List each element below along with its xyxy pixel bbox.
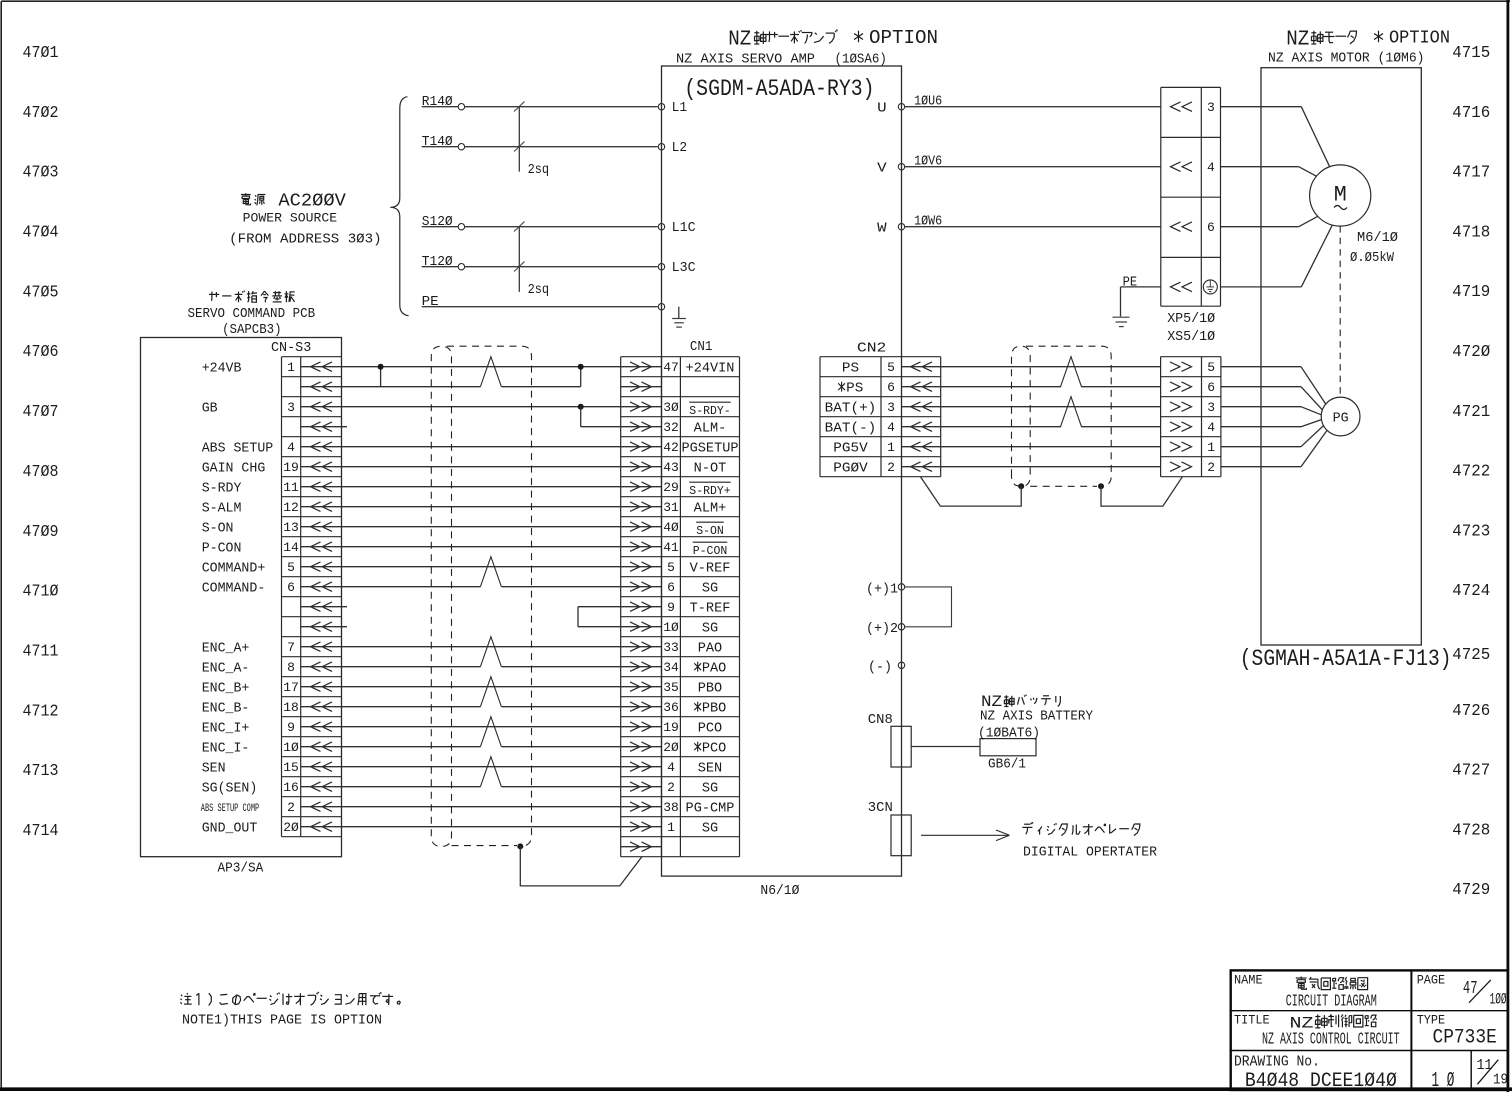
svg-text:4: 4 <box>887 420 895 435</box>
connector arrow CN1 row 22 <box>630 782 640 792</box>
terminal L1 <box>658 104 664 110</box>
connector arrow CN-S3 row 22 <box>311 782 321 792</box>
svg-text:L1: L1 <box>672 101 688 116</box>
connector arrow CN1 row 9 <box>630 522 640 532</box>
wire CN-S3 row 18 to CN1 (twisted) <box>301 706 481 708</box>
svg-text:DRAWING No.: DRAWING No. <box>1234 1053 1320 1070</box>
svg-text:4715: 4715 <box>1452 44 1490 63</box>
svg-text:XP5/1Ø: XP5/1Ø <box>1167 312 1215 327</box>
connector arrow CN-S3 row 8 <box>311 502 321 512</box>
cable bundle 2sq (top) <box>518 107 520 172</box>
svg-text:4: 4 <box>1207 420 1215 435</box>
svg-text:4728: 4728 <box>1452 821 1490 840</box>
svg-text:NOTE1)THIS PAGE IS OPTION: NOTE1)THIS PAGE IS OPTION <box>182 1014 382 1029</box>
svg-text:ENC_I-: ENC_I- <box>202 741 250 756</box>
svg-text:POWER SOURCE: POWER SOURCE <box>243 210 338 225</box>
connector arrow CN-S3 row 15 <box>311 642 321 652</box>
svg-text:32: 32 <box>663 420 679 435</box>
wire CN-S3 row 24 to CN1 <box>301 826 662 828</box>
connector arrow CN1 row 19 <box>630 722 640 732</box>
svg-text:11: 11 <box>1477 1057 1493 1074</box>
connector arrow CN1 row 8 <box>630 502 640 512</box>
twisted pair symbol rows 15/16 <box>480 637 501 667</box>
battery GB6/1 box <box>980 739 1036 756</box>
PCB box AP3/SA <box>141 338 342 857</box>
shield junction <box>1098 483 1104 489</box>
svg-text:33: 33 <box>663 640 679 655</box>
svg-text:CP733E: CP733E <box>1433 1027 1497 1050</box>
twisted pair symbol rows 17/18 <box>480 677 501 707</box>
svg-text:NZ AXIS CONTROL CIRCUIT: NZ AXIS CONTROL CIRCUIT <box>1262 1030 1400 1049</box>
svg-text:4727: 4727 <box>1452 762 1490 781</box>
svg-text:T-REF: T-REF <box>690 601 731 616</box>
connector arrow CN-S3 row 17 <box>311 682 321 692</box>
svg-text:5: 5 <box>1207 360 1215 375</box>
wire U to motor <box>1221 106 1302 108</box>
terminal (-) <box>898 662 904 668</box>
svg-text:GND_OUT: GND_OUT <box>202 821 258 836</box>
svg-text:PS: PS <box>842 361 859 376</box>
arrow to digital operator <box>921 834 1008 836</box>
connector arrow CN1 row 3 <box>630 402 640 412</box>
twisted pair PS/*PS <box>1061 357 1082 387</box>
svg-text:ENC_A-: ENC_A- <box>202 661 250 676</box>
terminal (+)2 <box>898 624 904 630</box>
svg-text:ENC_B+: ENC_B+ <box>202 681 250 696</box>
svg-text:35: 35 <box>663 680 679 695</box>
svg-text:19: 19 <box>1493 1071 1508 1088</box>
connector arrow CN-S3 row 23 <box>311 802 321 812</box>
svg-text:47Ø6: 47Ø6 <box>23 343 59 362</box>
svg-text:TYPE: TYPE <box>1417 1013 1446 1028</box>
wire CN-S3 row 5 to CN1 <box>301 446 662 448</box>
pin 3 (XS5 PG) <box>1170 402 1180 412</box>
connector arrow CN-S3 row 16 <box>311 662 321 672</box>
svg-text:1Ø: 1Ø <box>663 620 679 635</box>
connector arrow CN1 row 5 <box>630 442 640 452</box>
connector arrow CN-S3 row 3 <box>311 402 321 412</box>
svg-text:8: 8 <box>287 660 295 675</box>
svg-text:4725: 4725 <box>1452 646 1490 665</box>
svg-text:PG: PG <box>1333 412 1349 427</box>
svg-text:16: 16 <box>283 780 299 795</box>
svg-text:47Ø9: 47Ø9 <box>23 523 59 542</box>
svg-text:SERVO COMMAND PCB: SERVO COMMAND PCB <box>188 307 316 322</box>
svg-text:47: 47 <box>663 360 679 375</box>
wire CN-S3 row 16 to CN1 (twisted) <box>301 666 481 668</box>
svg-text:1ØW6: 1ØW6 <box>914 215 942 230</box>
svg-text:1: 1 <box>287 360 295 375</box>
svg-text:PG-CMP: PG-CMP <box>686 801 735 816</box>
pin 4 (XS5 PG) <box>1170 422 1180 432</box>
pin *PS = 6 (CN2) <box>838 382 845 392</box>
svg-text:PAO: PAO <box>698 641 722 656</box>
svg-text:31: 31 <box>663 500 679 515</box>
NAME value japanese <box>1296 977 1368 990</box>
wire T-REF/SG jumper <box>578 606 662 608</box>
connector arrow CN-S3 row 18 <box>311 702 321 712</box>
connector arrow CN-S3 row 9 <box>311 522 321 532</box>
svg-text:(1ØSA6): (1ØSA6) <box>835 53 887 68</box>
twisted pair symbol rows 11/12 <box>480 557 501 587</box>
terminal L1C <box>658 224 664 230</box>
svg-text:PG5V: PG5V <box>833 441 868 456</box>
pin name *PAO <box>694 662 701 672</box>
svg-text:S-ON: S-ON <box>202 521 234 536</box>
shield drain CN2 side <box>921 477 1022 506</box>
shield drain XS5 side <box>1101 477 1182 506</box>
wire CN-S3 row 22 to CN1 (twisted) <box>301 786 481 788</box>
terminal L3C <box>658 264 664 270</box>
svg-text:PGSETUP: PGSETUP <box>681 441 738 456</box>
connector arrow CN1 row 16 <box>630 662 640 672</box>
svg-text:(FROM ADDRESS 3Ø3): (FROM ADDRESS 3Ø3) <box>229 232 381 248</box>
svg-text:DIGITAL OPERTATER: DIGITAL OPERTATER <box>1023 846 1157 861</box>
svg-text:(SGDM-A5ADA-RY3): (SGDM-A5ADA-RY3) <box>684 76 874 102</box>
connector arrow CN-S3 row 11 <box>311 562 321 572</box>
connector arrow CN1 row 17 <box>630 682 640 692</box>
svg-text:1: 1 <box>667 820 675 835</box>
svg-text:N-OT: N-OT <box>694 461 727 476</box>
svg-text:TITLE: TITLE <box>1234 1013 1270 1028</box>
connector arrow CN1 row 11 <box>630 562 640 572</box>
svg-text:47Ø2: 47Ø2 <box>23 104 59 123</box>
twisted pair symbol rows 21/22 <box>480 757 501 787</box>
svg-text:PCO: PCO <box>702 741 726 756</box>
svg-text:9: 9 <box>287 720 295 735</box>
svg-text:3: 3 <box>887 400 895 415</box>
wire XS5 to PG <box>1221 466 1301 468</box>
svg-text:3CN: 3CN <box>868 801 893 816</box>
shield drain wire to CN1 <box>520 846 642 886</box>
svg-text:GB6/1: GB6/1 <box>988 757 1026 772</box>
svg-text:PCO: PCO <box>698 721 722 736</box>
svg-text:4719: 4719 <box>1452 283 1490 302</box>
wire CN2 row 3 <box>902 406 1161 408</box>
svg-text:4714: 4714 <box>23 822 59 841</box>
power source label <box>241 193 266 205</box>
cable shield (dashed capsule, left) <box>431 346 451 846</box>
wire CN-S3 row 7 to CN1 <box>301 486 662 488</box>
svg-text:4718: 4718 <box>1452 223 1490 242</box>
servo command PCB label <box>209 291 295 303</box>
svg-text:5: 5 <box>887 360 895 375</box>
svg-text:2: 2 <box>1207 460 1215 475</box>
svg-text:ENC_I+: ENC_I+ <box>202 721 250 736</box>
svg-text:(+)2: (+)2 <box>866 622 898 637</box>
svg-text:SEN: SEN <box>698 761 722 776</box>
svg-text:1: 1 <box>887 440 895 455</box>
svg-text:2Ø: 2Ø <box>663 740 679 755</box>
wire CN-S3 row 20 to CN1 (twisted) <box>301 746 481 748</box>
svg-text:+24VIN: +24VIN <box>686 361 735 376</box>
wire CN-S3 row 17 to CN1 <box>301 686 662 688</box>
connector arrow CN-S3 row 6 <box>311 462 321 472</box>
svg-text:NAME: NAME <box>1234 973 1263 988</box>
connector arrow CN1 row 20 <box>630 742 640 752</box>
svg-text:43: 43 <box>663 460 679 475</box>
junction <box>578 364 584 370</box>
connector arrow CN1 row 2 <box>630 382 640 392</box>
wire CN-S3 row 6 to CN1 <box>301 466 662 468</box>
shield junction <box>1018 483 1024 489</box>
svg-text:S-ON: S-ON <box>696 525 724 538</box>
wire CN-S3 row 23 to CN1 <box>301 806 662 808</box>
wire CN2 row 2 (twisted) <box>902 386 1062 388</box>
svg-text:COMMAND-: COMMAND- <box>202 581 266 596</box>
connector arrow CN1 row 13 <box>630 602 640 612</box>
connector arrow CN1 row 12 <box>630 582 640 592</box>
wire CN-S3 row 10 to CN1 <box>301 546 662 548</box>
svg-text:47Ø4: 47Ø4 <box>23 223 59 242</box>
svg-text:4726: 4726 <box>1452 702 1490 721</box>
wire CN-S3 row 12 to CN1 (twisted) <box>301 586 481 588</box>
svg-text:47Ø5: 47Ø5 <box>23 283 59 302</box>
svg-text:S-ALM: S-ALM <box>202 501 242 516</box>
svg-text:CN8: CN8 <box>868 713 893 728</box>
svg-text:471Ø: 471Ø <box>23 583 59 602</box>
svg-text:CN1: CN1 <box>690 340 713 355</box>
connector arrow CN1 row 15 <box>630 642 640 652</box>
brace (power group) <box>390 97 408 316</box>
wire CN2 row 6 <box>902 466 1161 468</box>
svg-text:NZ AXIS MOTOR (1ØM6): NZ AXIS MOTOR (1ØM6) <box>1268 51 1425 66</box>
svg-text:(-): (-) <box>868 661 892 676</box>
svg-text:PGØV: PGØV <box>833 461 868 476</box>
wire CN-S3 row 1 to CN1 <box>301 366 662 368</box>
pin name *PBO <box>694 702 701 712</box>
connector arrow CN-S3 row 20 <box>311 742 321 752</box>
svg-text:4713: 4713 <box>23 762 59 781</box>
svg-text:U: U <box>877 101 887 116</box>
svg-text:P-CON: P-CON <box>202 541 242 556</box>
connector arrow CN-S3 row 12 <box>311 582 321 592</box>
svg-text:17: 17 <box>283 680 299 695</box>
svg-text:CIRCUIT DIAGRAM: CIRCUIT DIAGRAM <box>1286 992 1377 1011</box>
wire XS5 to PG <box>1221 406 1301 408</box>
servo amp box (10SA6) <box>662 66 902 876</box>
svg-text:4711: 4711 <box>23 643 59 662</box>
svg-text:S-RDY: S-RDY <box>202 481 242 496</box>
pin 5 (XS5 PG) <box>1170 362 1180 372</box>
connector arrow CN-S3 row 21 <box>311 762 321 772</box>
svg-text:4: 4 <box>1207 160 1215 175</box>
connector arrow CN-S3 row 19 <box>311 722 321 732</box>
connector arrow CN1 row 25 <box>630 842 640 852</box>
connector arrow CN-S3 row 2 <box>311 382 321 392</box>
svg-text:PS: PS <box>846 381 863 396</box>
connector arrow CN-S3 row 7 <box>311 482 321 492</box>
pin 6 (XS5 PG) <box>1170 382 1180 392</box>
svg-text:SEN: SEN <box>202 761 226 776</box>
svg-text:4717: 4717 <box>1452 164 1490 183</box>
svg-text:14: 14 <box>283 540 299 555</box>
connector arrow CN1 row 21 <box>630 762 640 772</box>
svg-text:S-RDY-: S-RDY- <box>689 405 730 418</box>
wire CN-S3 row 15 to CN1 <box>301 646 662 648</box>
svg-text:ENC_B-: ENC_B- <box>202 701 250 716</box>
shield junction <box>517 843 523 849</box>
svg-text:PBO: PBO <box>698 681 722 696</box>
svg-text:47Ø1: 47Ø1 <box>23 44 59 63</box>
svg-text:19: 19 <box>283 460 299 475</box>
svg-text:41: 41 <box>663 540 679 555</box>
svg-text:L1C: L1C <box>672 221 696 236</box>
wire CN-S3 row 11 to CN1 <box>301 566 662 568</box>
connector arrow CN-S3 row 5 <box>311 442 321 452</box>
pin 2 (XS5 PG) <box>1170 462 1180 472</box>
svg-text:1: 1 <box>1207 440 1215 455</box>
svg-text:PBO: PBO <box>702 701 726 716</box>
svg-text:47Ø8: 47Ø8 <box>23 463 59 482</box>
svg-text:B4Ø48 DCEE1Ø4Ø: B4Ø48 DCEE1Ø4Ø <box>1245 1070 1397 1092</box>
svg-text:R14Ø: R14Ø <box>422 95 453 110</box>
svg-text:PE: PE <box>1123 276 1138 291</box>
note 1 japanese <box>181 992 401 1006</box>
svg-text:ALM-: ALM- <box>694 421 727 436</box>
svg-text:N6/1Ø: N6/1Ø <box>760 884 799 899</box>
svg-text:S12Ø: S12Ø <box>422 215 453 230</box>
svg-text:2: 2 <box>287 800 295 815</box>
wire XS5 to PG <box>1221 446 1301 448</box>
svg-text:1 Ø: 1 Ø <box>1432 1070 1455 1092</box>
svg-text:OPTION: OPTION <box>1389 28 1450 48</box>
wire CN2 row 1 <box>902 366 1161 368</box>
svg-text:V: V <box>877 161 888 176</box>
title block <box>1231 970 1508 1090</box>
svg-text:34: 34 <box>663 660 679 675</box>
svg-text:5: 5 <box>667 560 675 575</box>
wire PE to motor <box>1221 286 1302 288</box>
svg-text:12: 12 <box>283 500 299 515</box>
svg-text:Ø.Ø5kW: Ø.Ø5kW <box>1350 251 1395 266</box>
svg-text:1ØU6: 1ØU6 <box>914 95 942 110</box>
svg-text:NZ: NZ <box>728 28 751 51</box>
junction <box>378 364 384 370</box>
wire W to motor <box>1221 226 1299 228</box>
wire CN-S3 row 21 to CN1 <box>301 766 662 768</box>
svg-text:2sq: 2sq <box>528 283 550 298</box>
svg-text:4Ø: 4Ø <box>663 520 679 535</box>
svg-text:47Ø3: 47Ø3 <box>23 164 59 183</box>
svg-text:29: 29 <box>663 480 679 495</box>
connector arrow CN-S3 row 10 <box>311 542 321 552</box>
svg-text:36: 36 <box>663 700 679 715</box>
svg-text:M: M <box>1334 183 1347 208</box>
svg-text:CN2: CN2 <box>857 342 887 357</box>
svg-text:1ØØ: 1ØØ <box>1490 991 1507 1009</box>
svg-text:472Ø: 472Ø <box>1452 343 1490 362</box>
svg-text:6: 6 <box>1207 380 1215 395</box>
svg-text:COMMAND+: COMMAND+ <box>202 561 266 576</box>
svg-text:NZ AXIS SERVO AMP: NZ AXIS SERVO AMP <box>676 53 815 68</box>
wire V to motor <box>1221 166 1299 168</box>
svg-text:NZ: NZ <box>981 693 1002 711</box>
wire CN8 to battery <box>911 746 980 748</box>
encoder PG symbol <box>1321 397 1360 436</box>
svg-text:W: W <box>877 221 888 236</box>
arrow stub CN1 row 25 <box>621 846 662 848</box>
svg-text:SG(SEN): SG(SEN) <box>202 781 258 796</box>
svg-text:11: 11 <box>283 480 299 495</box>
motor M symbol <box>1310 165 1371 226</box>
svg-text:4724: 4724 <box>1452 582 1490 601</box>
svg-text:S-RDY+: S-RDY+ <box>689 485 730 498</box>
svg-text:P-CON: P-CON <box>693 545 728 558</box>
ground symbol (motor PE) <box>1113 316 1130 318</box>
wire CN2 row 5 <box>902 446 1161 448</box>
svg-text:4716: 4716 <box>1452 104 1490 123</box>
svg-text:2: 2 <box>887 460 895 475</box>
svg-text:T14Ø: T14Ø <box>422 135 453 150</box>
svg-text:13: 13 <box>283 520 299 535</box>
svg-text:+24VB: +24VB <box>202 361 242 376</box>
svg-text:47Ø7: 47Ø7 <box>23 403 59 422</box>
wire CN2 row 4 (twisted) <box>902 426 1062 428</box>
svg-text:4722: 4722 <box>1452 463 1490 482</box>
svg-text:CN-S3: CN-S3 <box>271 341 311 356</box>
svg-text:SG: SG <box>702 581 718 596</box>
connector arrow CN1 row 4 <box>630 422 640 432</box>
connector XP5 table <box>1160 87 1162 306</box>
arrow stub CN1 row 2 <box>621 386 662 388</box>
pin 3 (XP5) <box>1171 102 1181 112</box>
connector arrow CN-S3 row 1 <box>311 362 321 372</box>
label digital operator <box>1022 822 1140 835</box>
pin name *PCO <box>694 742 701 752</box>
svg-text:1ØV6: 1ØV6 <box>914 155 942 170</box>
cable shield (dashed capsule, right) <box>1012 346 1031 486</box>
svg-text:4: 4 <box>287 440 295 455</box>
connector arrow CN1 row 23 <box>630 802 640 812</box>
connector arrow CN1 row 14 <box>630 622 640 632</box>
terminal (+)1 <box>898 584 904 590</box>
svg-text:6: 6 <box>1207 220 1215 235</box>
svg-text:(1ØBAT6): (1ØBAT6) <box>978 727 1040 742</box>
svg-text:ABS SETUP: ABS SETUP <box>202 441 274 456</box>
svg-text:42: 42 <box>663 440 679 455</box>
svg-text:3: 3 <box>1207 100 1215 115</box>
svg-text:OPTION: OPTION <box>869 27 938 49</box>
terminal L2 <box>658 144 664 150</box>
wire XS5 to PG <box>1221 386 1301 388</box>
svg-text:4723: 4723 <box>1452 522 1490 541</box>
svg-text:2sq: 2sq <box>528 163 550 178</box>
connector arrow CN1 row 7 <box>630 482 640 492</box>
svg-text:3Ø: 3Ø <box>663 400 679 415</box>
svg-text:(+)1: (+)1 <box>866 582 898 597</box>
connector arrow CN-S3 row 4 <box>311 422 321 432</box>
svg-text:38: 38 <box>663 800 679 815</box>
svg-text:19: 19 <box>663 720 679 735</box>
svg-text:6: 6 <box>667 580 675 595</box>
svg-text:3: 3 <box>287 400 295 415</box>
wire CN-S3 row 8 to CN1 <box>301 506 662 508</box>
svg-text:L2: L2 <box>672 141 688 156</box>
wire CN-S3 row 9 to CN1 <box>301 526 662 528</box>
wire XS5 to PG <box>1221 366 1301 368</box>
svg-text:GAIN CHG: GAIN CHG <box>202 461 266 476</box>
pin 1 (XS5 PG) <box>1170 442 1180 452</box>
wire CN-S3 row 3 to CN1 <box>301 406 662 408</box>
svg-text:2: 2 <box>667 780 675 795</box>
twisted pair BAT+/- <box>1061 397 1082 427</box>
svg-text:BAT(-): BAT(-) <box>825 421 877 436</box>
svg-text:1Ø: 1Ø <box>283 740 299 755</box>
svg-text:3: 3 <box>1207 400 1215 415</box>
connector XS5 PG table <box>1160 357 1162 477</box>
svg-text:6: 6 <box>887 380 895 395</box>
